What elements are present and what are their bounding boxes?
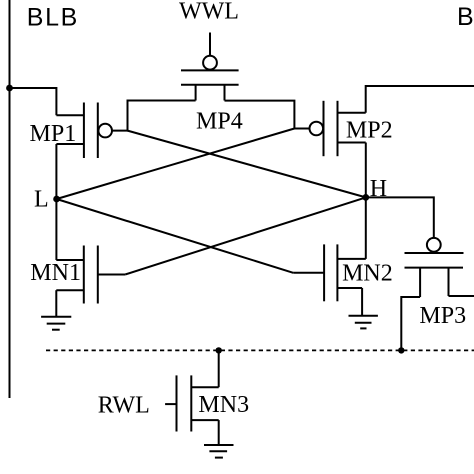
wire MN2 source to ground xyxy=(361,288,363,316)
ground MN2 xyxy=(349,316,378,329)
node H xyxy=(362,194,369,201)
wire MP1 drain to L to MN1 drain xyxy=(55,144,57,260)
junction MP3 on dashed rail xyxy=(398,347,404,353)
wire MP4 right to MP2 gate xyxy=(225,101,310,129)
label L xyxy=(34,187,49,213)
junction MN3 on dashed rail xyxy=(216,347,222,353)
svg-text:L: L xyxy=(34,187,49,213)
svg-text:BL: BL xyxy=(457,3,474,31)
wire cross-couple MP2 gate to L xyxy=(57,129,295,200)
wire cross-couple L to MN2 gate xyxy=(57,199,294,273)
svg-text:MP2: MP2 xyxy=(346,118,393,144)
wire BLB to MP1 source xyxy=(10,88,57,115)
ground MN1 xyxy=(41,317,71,330)
label BL xyxy=(457,3,474,31)
label MP1 xyxy=(30,121,77,147)
wire MP2 source to BL xyxy=(366,86,474,113)
svg-text:MP3: MP3 xyxy=(419,303,466,329)
label MN2 xyxy=(342,261,393,287)
label BLB xyxy=(27,4,79,32)
wire MP3 source to right edge xyxy=(449,295,474,297)
wire MP4 left to MP1 gate xyxy=(112,101,196,131)
label MP2 xyxy=(346,118,393,144)
junction BLB node xyxy=(6,85,13,92)
svg-text:MN3: MN3 xyxy=(198,392,249,418)
wire MP3 drain to virtual ground rail xyxy=(401,297,420,350)
node L xyxy=(53,196,60,203)
wire cross-couple H to MN1 gate xyxy=(125,197,366,274)
net BLB rail xyxy=(9,0,11,398)
label MP3 xyxy=(419,303,466,329)
net virtual ground dashed rail xyxy=(46,349,474,351)
wire H to MP3 gate xyxy=(366,197,434,238)
wire MN1 source to ground xyxy=(55,290,57,317)
svg-text:MN1: MN1 xyxy=(30,260,81,286)
pmos MP2 xyxy=(310,101,366,156)
pmos MP4 xyxy=(181,56,239,101)
svg-text:RWL: RWL xyxy=(98,393,150,419)
label WWL xyxy=(179,0,239,25)
svg-text:MN2: MN2 xyxy=(342,261,393,287)
svg-text:BLB: BLB xyxy=(27,4,79,32)
label MP4 xyxy=(196,108,243,134)
pmos MP3 xyxy=(405,238,464,297)
label MN1 xyxy=(30,260,81,286)
pmos MP1 xyxy=(56,103,112,159)
nmos MN3 xyxy=(165,375,219,431)
svg-text:MP4: MP4 xyxy=(196,108,243,134)
svg-text:WWL: WWL xyxy=(179,0,239,25)
nmos MN1 xyxy=(56,246,125,304)
wire WWL stub xyxy=(209,33,211,56)
label RWL xyxy=(98,393,150,419)
wire dashed rail to MN3 drain xyxy=(218,350,220,387)
wire cross-couple MP1 gate to H xyxy=(128,131,366,198)
ground MN3 xyxy=(204,445,234,458)
wire MP2 drain to H to MN2 drain xyxy=(365,143,367,259)
svg-text:MP1: MP1 xyxy=(30,121,77,147)
label MN3 xyxy=(198,392,249,418)
nmos MN2 xyxy=(293,244,366,301)
label H xyxy=(370,176,387,202)
wire MN3 source to ground xyxy=(218,420,220,445)
